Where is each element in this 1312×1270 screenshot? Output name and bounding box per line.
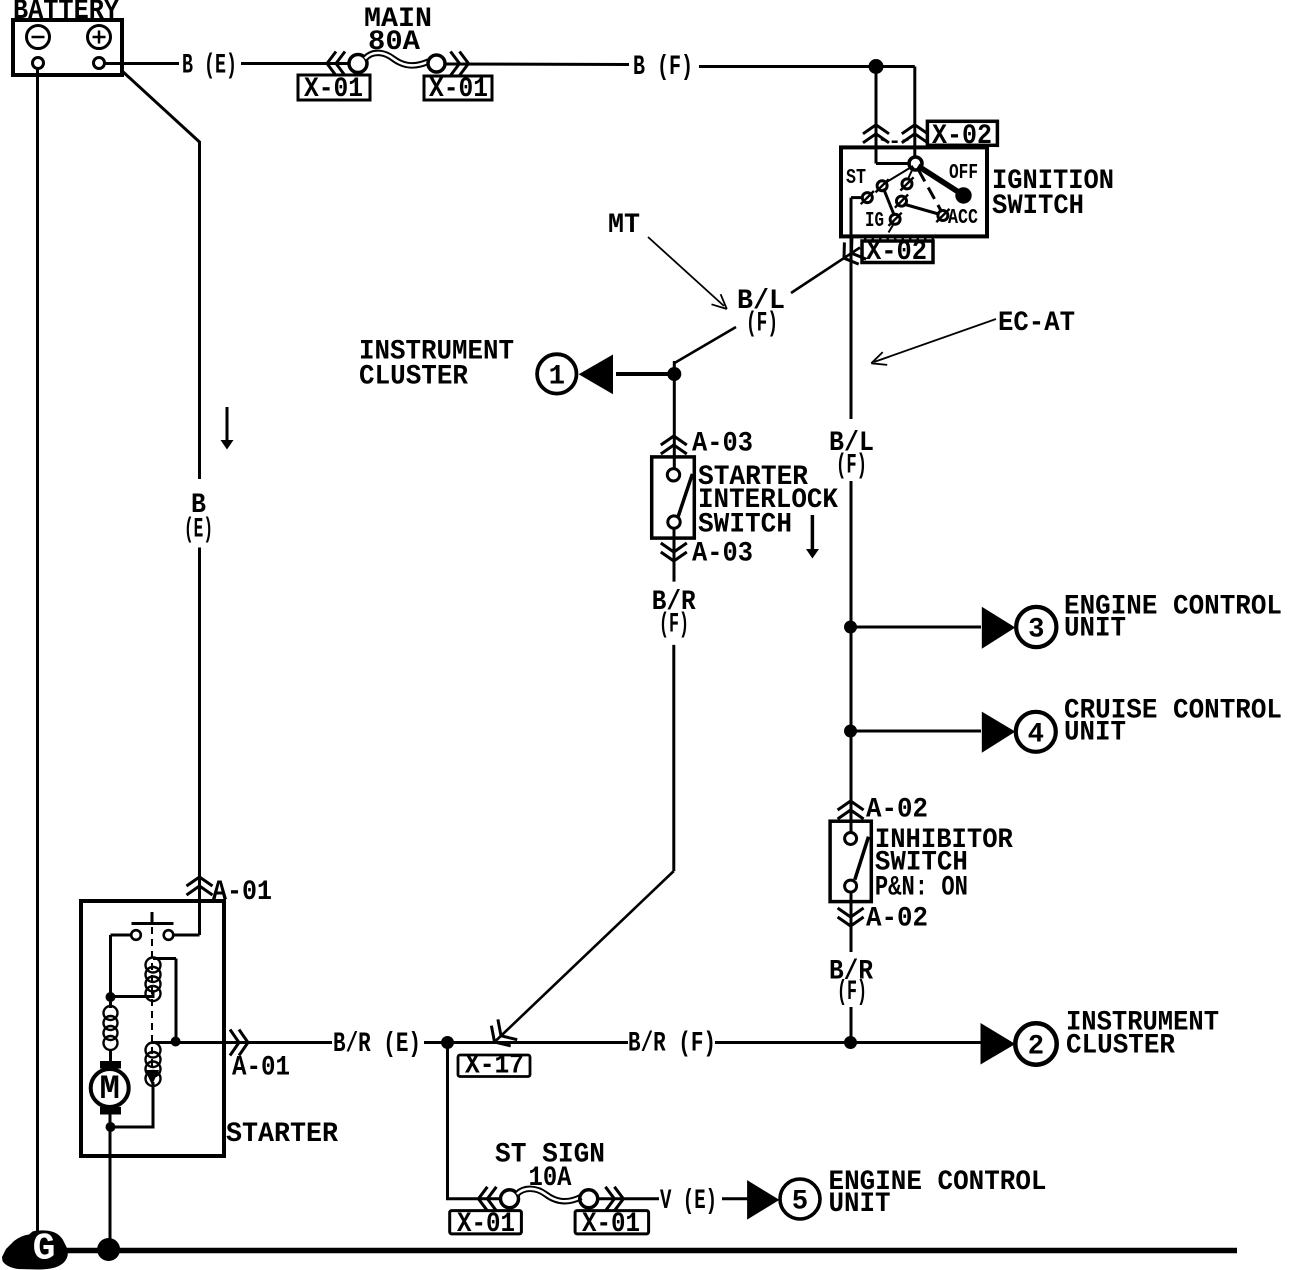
svg-text:A-03: A-03 (692, 539, 753, 570)
svg-text:M: M (99, 1071, 119, 1109)
svg-text:(F): (F) (746, 309, 778, 340)
svg-text:A-02: A-02 (866, 904, 928, 935)
svg-text:BATTERY: BATTERY (13, 0, 120, 27)
svg-text:SWITCH: SWITCH (992, 191, 1084, 222)
svg-text:IG: IG (865, 209, 884, 233)
svg-text:4: 4 (1028, 719, 1044, 750)
svg-text:B/R (F): B/R (F) (628, 1029, 716, 1060)
svg-text:(F): (F) (836, 451, 867, 482)
svg-text:X-01: X-01 (582, 1209, 640, 1240)
svg-text:(F): (F) (659, 610, 689, 641)
svg-text:X-01: X-01 (457, 1209, 515, 1240)
svg-text:(E): (E) (184, 515, 213, 546)
svg-text:A-01: A-01 (232, 1053, 290, 1084)
svg-text:UNIT: UNIT (1064, 614, 1126, 645)
svg-text:CLUSTER: CLUSTER (1066, 1031, 1176, 1062)
svg-text:G: G (33, 1228, 56, 1270)
svg-text:B (E): B (E) (182, 51, 237, 82)
svg-text:CLUSTER: CLUSTER (359, 362, 469, 393)
svg-text:MT: MT (608, 210, 640, 241)
svg-text:A-03: A-03 (692, 429, 753, 460)
svg-text:EC-AT: EC-AT (998, 308, 1075, 339)
svg-text:5: 5 (792, 1187, 808, 1218)
svg-text:OFF: OFF (949, 161, 978, 185)
svg-text:ACC: ACC (948, 206, 978, 230)
svg-text:X-01: X-01 (304, 74, 363, 105)
svg-text:UNIT: UNIT (1064, 718, 1126, 749)
svg-text:2: 2 (1028, 1032, 1044, 1063)
svg-text:A-02: A-02 (866, 795, 928, 826)
svg-text:X-17: X-17 (465, 1051, 524, 1082)
svg-text:P&N: ON: P&N: ON (875, 872, 968, 903)
svg-text:A-01: A-01 (212, 877, 272, 908)
svg-text:3: 3 (1028, 615, 1044, 646)
svg-text:UNIT: UNIT (829, 1189, 891, 1220)
svg-text:1: 1 (549, 362, 565, 393)
svg-text:STARTER: STARTER (226, 1119, 339, 1150)
svg-text:B/R (E): B/R (E) (333, 1029, 421, 1060)
svg-text:X-02: X-02 (866, 237, 927, 268)
svg-text:SWITCH: SWITCH (698, 510, 792, 541)
svg-text:(F): (F) (837, 977, 867, 1008)
svg-text:V (E): V (E) (660, 1186, 717, 1217)
svg-text:B (F): B (F) (633, 52, 693, 83)
svg-text:ST: ST (846, 166, 866, 190)
svg-text:X-01: X-01 (429, 74, 488, 105)
